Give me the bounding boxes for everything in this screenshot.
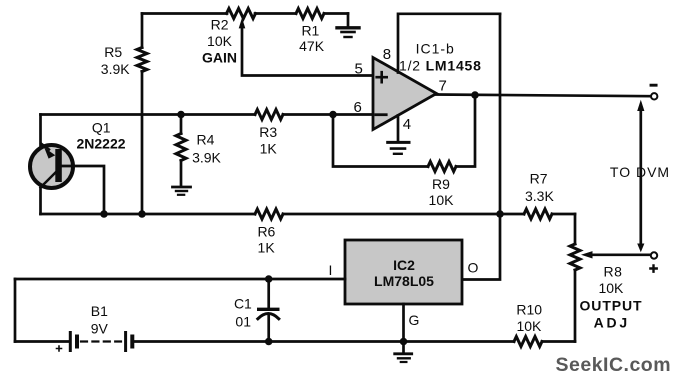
svg-text:OUTPUT: OUTPUT bbox=[580, 297, 643, 313]
resistor R2 bbox=[227, 9, 256, 19]
svg-text:R2: R2 bbox=[211, 17, 229, 33]
svg-text:6: 6 bbox=[354, 99, 362, 116]
op-amp U1 IC1-b bbox=[373, 58, 437, 130]
svg-text:R4: R4 bbox=[197, 131, 215, 147]
wire IC2 input rail bbox=[15, 278, 345, 281]
transistor Q1 bbox=[30, 145, 73, 188]
svg-text:10K: 10K bbox=[598, 280, 624, 296]
svg-text:3.9K: 3.9K bbox=[192, 150, 221, 166]
node pin7 junction bbox=[471, 91, 479, 99]
node R7 junction bbox=[496, 210, 504, 218]
battery B1 bbox=[69, 333, 72, 351]
svg-text:R10: R10 bbox=[516, 301, 542, 317]
ground (right of R1) bbox=[337, 14, 359, 38]
node pin6 junction bbox=[329, 111, 337, 119]
svg-text:47K: 47K bbox=[299, 38, 325, 54]
node IC2 ground junction bbox=[400, 338, 408, 346]
svg-text:3.3K: 3.3K bbox=[525, 188, 554, 204]
svg-text:1K: 1K bbox=[258, 240, 276, 256]
svg-text:10K: 10K bbox=[207, 33, 233, 49]
svg-text:IC1-b: IC1-b bbox=[416, 41, 455, 57]
svg-text:3.9K: 3.9K bbox=[101, 61, 130, 77]
svg-text:4: 4 bbox=[403, 116, 411, 133]
TO DVM span arrow bbox=[639, 110, 642, 244]
svg-text:LM78L05: LM78L05 bbox=[374, 273, 434, 289]
svg-text:R7: R7 bbox=[530, 171, 548, 187]
node base-rail Q1 junction bbox=[100, 210, 108, 218]
svg-text:SeekIC.com: SeekIC.com bbox=[556, 354, 672, 376]
svg-text:R6: R6 bbox=[257, 224, 275, 240]
wire top supply rail bbox=[142, 12, 348, 15]
resistor R5 bbox=[141, 14, 144, 215]
svg-text:I: I bbox=[329, 262, 333, 278]
node R5-emitter rail junction bbox=[138, 210, 146, 218]
svg-text:ADJ: ADJ bbox=[594, 315, 630, 331]
svg-text:R8: R8 bbox=[604, 263, 623, 279]
svg-text:8: 8 bbox=[383, 46, 391, 63]
wire base rail bbox=[41, 113, 374, 116]
ground (op-amp pin 4) bbox=[388, 142, 409, 153]
svg-text:01: 01 bbox=[235, 314, 251, 330]
svg-text:10K: 10K bbox=[516, 318, 542, 334]
resistor R7 bbox=[500, 213, 575, 216]
resistor R1 bbox=[296, 9, 324, 19]
wire bottom rail bbox=[15, 340, 575, 343]
svg-text:R3: R3 bbox=[259, 124, 277, 140]
node C1 top junction bbox=[265, 275, 273, 283]
svg-text:7: 7 bbox=[439, 78, 447, 95]
wire feedback loop bbox=[333, 95, 475, 167]
wire battery left leg bbox=[14, 279, 17, 342]
svg-text:1K: 1K bbox=[260, 141, 278, 157]
svg-text:10K: 10K bbox=[429, 192, 455, 208]
svg-text:1/2 LM1458: 1/2 LM1458 bbox=[399, 57, 482, 73]
ground (under R4) bbox=[173, 187, 191, 195]
svg-text:Q1: Q1 bbox=[92, 119, 111, 135]
svg-text:B1: B1 bbox=[91, 303, 108, 319]
svg-text:R5: R5 bbox=[104, 44, 122, 60]
terminal plus output bbox=[651, 252, 657, 258]
wire V+ rail bbox=[462, 14, 500, 280]
wire IC2 ground pin bbox=[402, 304, 405, 342]
wire R2 wiper to pin 5 bbox=[242, 27, 373, 76]
resistor R6 bbox=[255, 209, 283, 219]
svg-text:R9: R9 bbox=[432, 176, 450, 192]
potentiometer R8 bbox=[574, 214, 577, 342]
capacitor C1 bbox=[267, 279, 270, 309]
node C1 bottom junction bbox=[265, 338, 273, 346]
wire R8 wiper bbox=[592, 253, 651, 256]
resistor R3 bbox=[255, 110, 283, 120]
wire output pin 7 bbox=[435, 95, 651, 97]
node base-R4 junction bbox=[177, 111, 185, 119]
svg-text:C1: C1 bbox=[234, 296, 252, 312]
resistor R10 bbox=[514, 337, 542, 347]
terminal minus output bbox=[651, 93, 657, 99]
wire emitter rail bbox=[41, 213, 501, 216]
svg-text:G: G bbox=[409, 312, 420, 328]
svg-text:IC2: IC2 bbox=[393, 257, 415, 273]
svg-text:O: O bbox=[468, 260, 479, 276]
wire pin 4 stem bbox=[397, 116, 400, 142]
svg-text:9V: 9V bbox=[91, 321, 109, 337]
wire pin 8 to top bbox=[398, 14, 500, 73]
ground (IC2 G pin) bbox=[395, 342, 412, 363]
svg-text:GAIN: GAIN bbox=[202, 49, 237, 65]
svg-text:5: 5 bbox=[355, 61, 363, 78]
IC2 regulator box bbox=[345, 240, 462, 304]
svg-text:TO DVM: TO DVM bbox=[610, 164, 670, 180]
svg-text:R1: R1 bbox=[301, 23, 319, 39]
resistor R4 bbox=[180, 115, 183, 186]
svg-text:2N2222: 2N2222 bbox=[76, 136, 125, 152]
resistor R9 bbox=[428, 162, 456, 172]
